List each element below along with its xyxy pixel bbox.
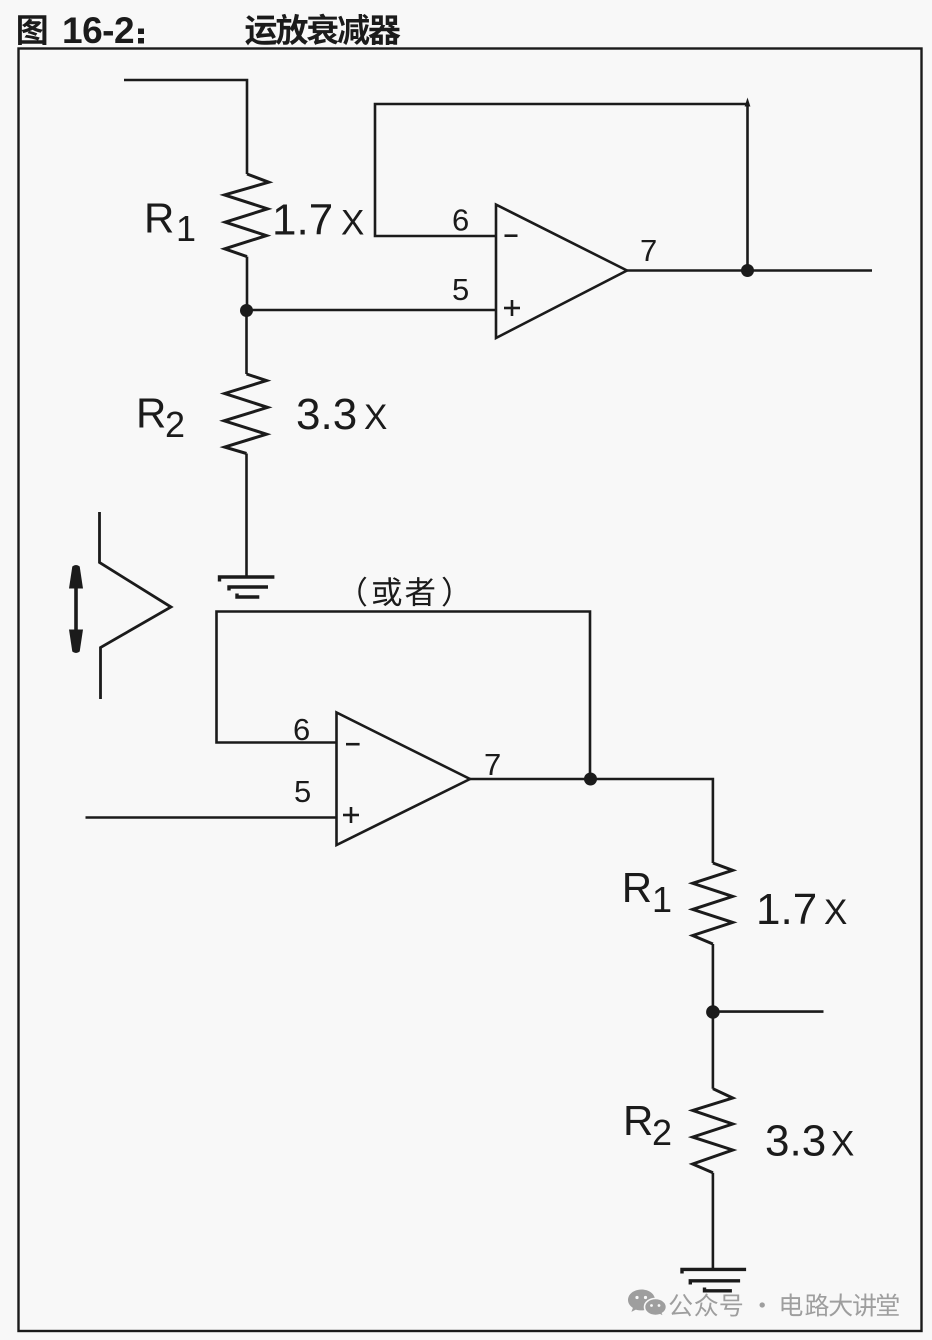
bidirectional signal arrow bbox=[69, 565, 83, 653]
resistor R2 (top divider) bbox=[224, 374, 268, 454]
watermark: WeChat logo + 公众号·电路大讲堂 bbox=[628, 1290, 899, 1317]
wire: U1 feedback loop pin7 to pin6 bbox=[375, 98, 750, 271]
resistor R1 (bottom divider) bbox=[693, 863, 733, 944]
svg-text:X: X bbox=[364, 398, 387, 437]
svg-text:5: 5 bbox=[294, 774, 311, 809]
op-amp U2 triangle bbox=[337, 713, 471, 846]
label R1 (bottom) bbox=[622, 864, 672, 920]
wire: node B to R2 (bottom) bbox=[712, 1012, 715, 1089]
svg-text:3.3: 3.3 bbox=[296, 390, 357, 439]
svg-text:1.7: 1.7 bbox=[756, 885, 817, 934]
wire: input to R1 top bbox=[124, 80, 247, 174]
label R2 (top) bbox=[136, 390, 185, 445]
wire: R2 to ground bbox=[245, 454, 248, 579]
svg-text:2: 2 bbox=[652, 1112, 672, 1153]
value label 3.3 X (bottom R2) bbox=[765, 1116, 854, 1165]
input signal source chevron bbox=[100, 512, 172, 699]
node A: R1/R2 tap junction dot bbox=[240, 304, 253, 317]
U1 non-inverting input marker (+) bbox=[504, 300, 520, 316]
svg-text:7: 7 bbox=[640, 233, 657, 268]
wire: U2 feedback loop pin7 to pin6 bbox=[217, 612, 591, 780]
svg-text:16-2: 16-2 bbox=[62, 10, 134, 51]
node: U1 output junction dot bbox=[741, 264, 754, 277]
resistor R2 (bottom divider) bbox=[693, 1089, 733, 1173]
note "(或者)" (or) bbox=[358, 577, 450, 607]
node: U2 output junction dot bbox=[584, 773, 597, 786]
svg-text:6: 6 bbox=[452, 203, 469, 238]
figure title "图 16-2: 运放衰减器" bbox=[18, 10, 400, 51]
svg-text:5: 5 bbox=[452, 272, 469, 307]
wire: U2 +input (pin 5) bbox=[86, 816, 337, 819]
resistor R1 (top divider) bbox=[225, 174, 269, 257]
wire: node A to U1 pin 5 (+) bbox=[247, 309, 497, 312]
svg-text:R: R bbox=[622, 864, 652, 911]
svg-text:1: 1 bbox=[652, 879, 672, 920]
value label 1.7 X (bottom R1) bbox=[756, 885, 847, 934]
svg-text:6: 6 bbox=[293, 712, 310, 747]
U2 inverting input marker (-) bbox=[346, 743, 360, 746]
wire: R1 to node B bbox=[712, 944, 715, 1012]
ground (bottom circuit) bbox=[682, 1269, 746, 1290]
U2 non-inverting input marker (+) bbox=[343, 807, 359, 823]
svg-text:X: X bbox=[824, 893, 847, 932]
label R1 (top) bbox=[144, 194, 196, 249]
svg-text:1.7: 1.7 bbox=[272, 196, 333, 245]
svg-text:R: R bbox=[144, 194, 174, 241]
svg-text:1: 1 bbox=[176, 208, 196, 249]
ground (top circuit) bbox=[220, 577, 275, 597]
value label 3.3 X (top R2) bbox=[296, 390, 387, 439]
wire: R2 to ground (bottom) bbox=[712, 1173, 715, 1270]
label R2 (bottom) bbox=[623, 1097, 672, 1153]
svg-text:3.3: 3.3 bbox=[765, 1116, 826, 1165]
wire: node A to R2 bbox=[245, 310, 248, 374]
svg-text:X: X bbox=[831, 1124, 854, 1163]
svg-text:7: 7 bbox=[484, 747, 501, 782]
U1 inverting input marker (-) bbox=[505, 234, 518, 237]
wire: U1 output (pin 7) bbox=[627, 269, 872, 272]
svg-text:R: R bbox=[136, 390, 166, 437]
node B: bottom tap junction dot bbox=[706, 1005, 720, 1019]
op-amp U1 triangle bbox=[496, 205, 627, 338]
value label 1.7 X (top R1) bbox=[272, 196, 364, 245]
svg-text:2: 2 bbox=[165, 404, 185, 445]
wire: R1 to node A bbox=[246, 257, 249, 310]
wire: U2 output to R1 (bottom) bbox=[470, 779, 713, 863]
wire: node B output stub bbox=[713, 1010, 824, 1013]
svg-text:X: X bbox=[341, 204, 364, 243]
svg-text:R: R bbox=[623, 1097, 653, 1144]
